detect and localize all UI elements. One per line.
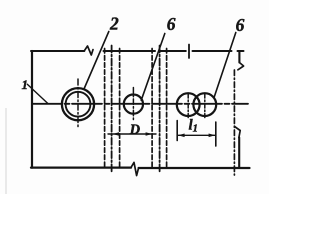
plate top edge segment D <box>193 50 232 52</box>
svg-text:6: 6 <box>167 14 176 34</box>
bottom edge break zigzag <box>131 162 139 175</box>
marking line L3 dashed <box>119 49 121 168</box>
slot left circle centerline <box>187 94 189 118</box>
leader to item 6 middle <box>141 34 165 101</box>
right break zigzag bottom <box>235 127 241 138</box>
tick on top edge <box>188 45 190 59</box>
dimension D line <box>108 133 156 135</box>
small hole vertical centerline <box>132 88 134 120</box>
dimension l1 extension right <box>215 122 217 146</box>
svg-text:6: 6 <box>236 15 245 35</box>
svg-text:2: 2 <box>109 13 119 33</box>
right break line solid bottom <box>238 138 240 168</box>
right break zigzag top <box>238 63 244 70</box>
marking line R2 dash-dot <box>159 46 161 173</box>
leader to item 6 right <box>214 33 236 97</box>
dimension l1 line <box>177 134 216 136</box>
marking line L1 dashed <box>104 49 106 168</box>
dash-dot marking line right margin <box>233 70 235 175</box>
dimension D right arrow <box>146 132 153 136</box>
marking line R1 dashed <box>151 49 153 168</box>
plate bottom edge segment A <box>31 167 131 169</box>
scan artifact faint line <box>5 108 7 194</box>
horizontal centerline <box>32 103 248 105</box>
slot right circle <box>193 93 216 116</box>
dimension D left arrow <box>112 132 119 136</box>
slot left circle <box>177 93 200 116</box>
dimension l1 right arrow <box>209 134 216 138</box>
svg-text:1: 1 <box>22 77 29 92</box>
marking line L2 dash-dot <box>111 46 113 173</box>
plate bottom edge segment B <box>139 167 250 169</box>
svg-text:D: D <box>129 122 141 138</box>
small hole circle <box>124 95 143 114</box>
big hole outer circle <box>62 88 94 120</box>
plate top edge segment C <box>160 50 186 52</box>
dimension l1 left arrow <box>178 134 185 138</box>
plate top edge segment B <box>104 50 156 52</box>
dimension l1 extension left <box>176 121 178 141</box>
leader to item 2 <box>84 32 109 89</box>
plate top edge segment E <box>238 50 244 52</box>
big hole vertical centerline <box>77 79 79 128</box>
plate left edge <box>31 51 33 168</box>
right break line solid top <box>238 51 240 63</box>
marking line R3 dashed <box>166 49 168 168</box>
leader to item 1 <box>27 84 48 103</box>
slot right circle centerline <box>204 94 206 118</box>
plate top edge segment A <box>31 50 84 52</box>
top edge break zigzag <box>84 46 93 55</box>
big hole inner circle <box>66 92 91 117</box>
